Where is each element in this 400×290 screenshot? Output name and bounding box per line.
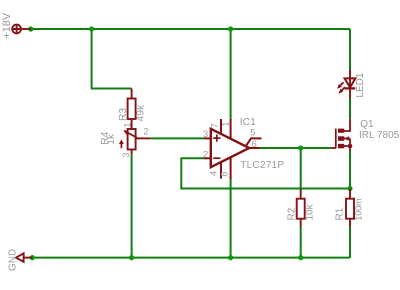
svg-text:10k: 10k (305, 203, 316, 220)
potentiometer R4 (121, 129, 150, 154)
wire pot pin3 to ground rail (131, 154, 133, 258)
wiper arrowhead (123, 130, 129, 135)
svg-text:5: 5 (250, 127, 255, 137)
wire feedback net pin2 (181, 158, 350, 188)
svg-text:3: 3 (121, 152, 131, 157)
op-amp IC1 triangle (211, 129, 249, 167)
pin 3 stub (204, 137, 211, 139)
svg-text:3: 3 (203, 129, 208, 139)
junction top rail at terminal (28, 26, 33, 31)
op-amp minus sign (213, 157, 220, 159)
wire branch to R3 (92, 29, 132, 89)
pin 6 output stub (249, 147, 260, 149)
svg-text:2: 2 (203, 150, 208, 160)
wire R2 bottom to rail (300, 227, 302, 258)
junction gnd rail opamp (228, 255, 233, 260)
resistor R3 (128, 89, 136, 130)
mosfet Q1 (331, 119, 350, 151)
gate stub (331, 147, 336, 149)
svg-text:GND: GND (7, 249, 18, 271)
emission arrowheads (337, 84, 342, 89)
drain lead (344, 119, 350, 132)
junction top rail vdd column (228, 26, 233, 31)
wire R1 bottom to rail (349, 227, 351, 258)
supply terminal +18V (12, 25, 31, 34)
source lead (349, 139, 351, 151)
svg-text:R3: R3 (118, 108, 129, 121)
wiper diagonal (126, 132, 138, 139)
svg-text:100m: 100m (354, 198, 364, 221)
svg-text:1: 1 (221, 121, 231, 126)
wire LED cathode to mosfet drain (349, 98, 351, 119)
svg-text:2: 2 (143, 127, 148, 137)
svg-text:TLC271P: TLC271P (240, 160, 284, 171)
LED LED1 (340, 69, 355, 98)
resistor R1 (346, 189, 354, 227)
svg-text:4: 4 (209, 171, 219, 176)
channel bar top (338, 129, 344, 133)
svg-text:6: 6 (252, 139, 257, 149)
svg-text:1k: 1k (106, 133, 117, 145)
svg-text:R1: R1 (335, 207, 346, 220)
svg-text:49k: 49k (136, 104, 147, 121)
bulk arrowhead (344, 136, 349, 141)
svg-text:IC1: IC1 (240, 117, 256, 128)
junction gnd rail R2 (298, 255, 303, 260)
svg-text:7: 7 (209, 123, 219, 128)
source junction dot (348, 144, 353, 149)
junction gnd rail terminal (30, 255, 35, 260)
pin 1 stub top right (230, 119, 232, 139)
wire top rail +18V (29, 28, 350, 30)
svg-text:Q1: Q1 (360, 119, 374, 130)
junction gnd rail pot (129, 255, 134, 260)
wire wiper to op-amp pin3 (150, 137, 204, 139)
svg-text:8: 8 (220, 171, 230, 176)
adjust arrowhead (119, 139, 124, 144)
bulk connect (344, 138, 350, 140)
wire mosfet source down (349, 151, 351, 189)
svg-text:LED1: LED1 (355, 72, 366, 97)
op-amp plus sign (213, 135, 220, 142)
pin 4 stub bottom left (220, 162, 222, 179)
svg-text:1: 1 (123, 122, 133, 127)
emission arrows (340, 82, 344, 86)
source connect (344, 145, 350, 147)
adjust arrow up (120, 143, 122, 148)
pin 2 stub (204, 157, 211, 159)
wire opamp vdd column (230, 29, 232, 120)
junction feedback R1 source (347, 186, 352, 191)
ground terminal GND (16, 253, 32, 261)
svg-text:+18V: +18V (1, 12, 13, 39)
wire op-amp output to gate (260, 147, 332, 149)
svg-text:R2: R2 (287, 207, 298, 220)
wire opamp pin8 to rail (230, 179, 232, 258)
svg-text:IRL 7805: IRL 7805 (359, 130, 400, 141)
resistor R2 (297, 190, 305, 227)
pin 7 stub top left (220, 119, 222, 134)
wire right column to LED (349, 29, 351, 69)
pin 5 stub (246, 138, 262, 145)
channel bar bottom (338, 144, 344, 149)
junction top rail R3 branch (89, 26, 94, 31)
gate line (335, 129, 337, 149)
wire bottom GND rail (29, 257, 350, 259)
pin 8 stub bottom right (230, 157, 232, 179)
wire output branch to R2 (300, 148, 302, 190)
junction output to R2 branch (298, 145, 303, 150)
channel bar middle (338, 136, 344, 141)
